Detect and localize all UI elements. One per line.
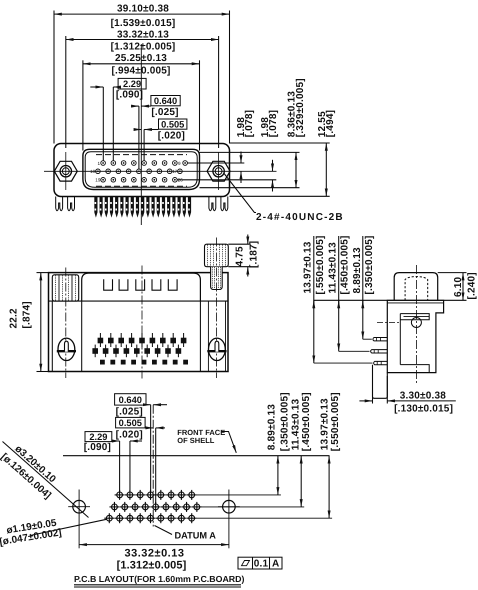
rotated dim text .078 a bbox=[244, 110, 255, 137]
svg-text:[.550±0.005]: [.550±0.005] bbox=[315, 235, 326, 294]
dia 3.20 text bbox=[13, 444, 58, 486]
rotated text .240 bbox=[467, 272, 478, 299]
flange outline bbox=[54, 144, 230, 197]
side body top second line bbox=[387, 302, 443, 304]
dim text 1.312 bbox=[111, 41, 176, 52]
rotated text 13.97 pcb bbox=[320, 398, 331, 450]
boardlock prong right B bbox=[221, 197, 228, 211]
rear inner vertical right a bbox=[199, 301, 201, 371]
boardlock peg bbox=[373, 365, 388, 399]
jackscrew head knurl hatch bbox=[208, 245, 226, 267]
dim line 1.98 second (outside arrows) bbox=[272, 160, 274, 172]
extension line left flange edge bbox=[53, 11, 55, 144]
extension line row1 right bbox=[187, 162, 244, 164]
jackscrew knurl silhouette dashed bbox=[405, 277, 428, 301]
svg-text:13.97±0.13: 13.97±0.13 bbox=[303, 241, 314, 293]
dia 1.19 text bbox=[6, 518, 58, 537]
svg-text:[.329±0.005]: [.329±0.005] bbox=[295, 78, 306, 137]
side body outline bbox=[387, 300, 443, 372]
svg-text:0.505: 0.505 bbox=[119, 418, 142, 428]
rear screw right bbox=[209, 338, 226, 360]
insulator hidden line top bbox=[96, 154, 187, 156]
extension line right flange edge bbox=[229, 11, 231, 144]
side boardlock centerline horizontal bbox=[377, 322, 400, 324]
svg-text:33.32±0.13: 33.32±0.13 bbox=[117, 29, 169, 40]
rotated text .550 pcb bbox=[330, 392, 341, 451]
dim 3.30 extension left bbox=[372, 390, 374, 404]
rotated dim text 22.2 bbox=[9, 308, 20, 329]
dim text 3.30 bbox=[400, 391, 446, 402]
side slot inner line bbox=[404, 316, 430, 318]
rotated text .350 pcb bbox=[279, 392, 290, 451]
dim line 22.2 bbox=[40, 273, 42, 372]
dim text 33.32 pcb bbox=[125, 548, 185, 560]
dim line 2.29 with outside arrows bbox=[90, 86, 103, 88]
boardlock prong left B bbox=[68, 197, 75, 211]
svg-text:1: 1 bbox=[97, 161, 100, 166]
svg-text:[.350±0.005]: [.350±0.005] bbox=[364, 235, 375, 294]
flatness symbol bbox=[242, 561, 250, 566]
svg-text:39.10±0.38: 39.10±0.38 bbox=[117, 4, 169, 15]
U slot 5 bbox=[168, 279, 177, 290]
boardlock prong left A bbox=[56, 197, 63, 211]
dim line 2.29 pcb bbox=[112, 440, 120, 442]
dim vertical 11.43 (middle) bbox=[338, 236, 340, 351]
FRONT FACE note bbox=[177, 428, 225, 437]
extension line mid row col5 bbox=[155, 428, 157, 504]
svg-text:3.30±0.38: 3.30±0.38 bbox=[400, 391, 446, 402]
extension line shell right bbox=[199, 60, 201, 150]
pcb hole row middle (9) bbox=[109, 502, 201, 512]
svg-text:6.10: 6.10 bbox=[453, 276, 464, 297]
rotated dim text 4.75 bbox=[235, 246, 246, 267]
pin row 3 (pins 19-26) bbox=[101, 178, 177, 183]
rear inner vertical right c bbox=[225, 301, 227, 371]
rotated text .450 middle bbox=[340, 235, 351, 294]
extension line flange bottom right bbox=[230, 195, 330, 197]
dim text 25.25 bbox=[115, 53, 167, 64]
side pin 2 bbox=[371, 350, 388, 353]
boardlock prong right A bbox=[209, 197, 216, 211]
svg-text:17: 17 bbox=[172, 169, 178, 174]
thread note text 2-4#-40UNC-2B bbox=[256, 212, 344, 223]
rotated dim text .329 bbox=[295, 78, 306, 137]
pin1 extension to 8.89 bbox=[363, 338, 372, 340]
rotated dim text .078 b bbox=[268, 110, 279, 137]
pin row 2 (pins 10-18) bbox=[96, 169, 183, 174]
U slot 2 bbox=[119, 279, 128, 290]
dim text 33.32 bbox=[117, 29, 169, 40]
dim 4.75 extension bottom bbox=[228, 266, 251, 268]
svg-text:11.43±0.13: 11.43±0.13 bbox=[290, 399, 301, 451]
dim text 1.312 pcb bbox=[117, 560, 187, 572]
rotated text .450 pcb bbox=[301, 392, 312, 451]
right screw outer circle bbox=[213, 166, 224, 177]
dim text .025 bbox=[151, 107, 178, 118]
rotated text 11.43 pcb bbox=[290, 399, 301, 451]
svg-text:2.29: 2.29 bbox=[89, 432, 107, 442]
svg-text:[.494]: [.494] bbox=[325, 110, 336, 137]
svg-text:[1.539±0.015]: [1.539±0.015] bbox=[111, 18, 176, 29]
side bottom notch bbox=[400, 365, 429, 373]
dia .126 text bbox=[0, 452, 53, 502]
dimension 33.32±0.13 line bbox=[66, 39, 219, 41]
dim line 0.505 pcb bbox=[145, 427, 153, 429]
insulator hidden line bottom bbox=[96, 185, 187, 187]
extension line shell inner top bbox=[200, 151, 300, 153]
dimension 39.10±0.38 line bbox=[54, 13, 230, 15]
dim text 1.539 bbox=[111, 18, 176, 29]
dim vertical 8.89 pcb bbox=[277, 456, 279, 495]
svg-text:[1.312±0.005]: [1.312±0.005] bbox=[117, 560, 187, 572]
right screw inner circle bbox=[215, 168, 222, 175]
boxed dim 0.640 bbox=[151, 96, 180, 106]
left hex standoff facet lines bbox=[58, 275, 60, 301]
svg-text:[1.312±0.005]: [1.312±0.005] bbox=[111, 41, 176, 52]
solder pins below flange bbox=[95, 197, 191, 217]
dim 22.2 extension bottom bbox=[37, 371, 52, 373]
D-shell inner outline bbox=[85, 152, 197, 188]
dim 4.75 extension top bbox=[228, 243, 251, 245]
dim line 4.75 outside arrows bbox=[247, 235, 249, 245]
dim text .090 bbox=[116, 89, 143, 100]
rotated dim text .187 bbox=[248, 241, 259, 268]
extension line row2 pin5 column bbox=[138, 106, 140, 169]
dia .047 text bbox=[0, 527, 62, 548]
extension line hole col2 bbox=[129, 441, 131, 492]
dim line 6.10 bbox=[462, 273, 464, 301]
rotated text .350 middle bbox=[364, 235, 375, 294]
right mounting hole bbox=[223, 500, 236, 513]
extension line top row col4 bbox=[150, 405, 152, 492]
row top extension right bbox=[197, 494, 281, 496]
row middle extension right bbox=[202, 506, 304, 508]
pin3 extension to 13.97 bbox=[314, 362, 373, 364]
boxed dim 0.505 pcb bbox=[116, 417, 146, 428]
dim 6.10 extension top bbox=[438, 272, 467, 274]
dim vertical 11.43 pcb bbox=[300, 456, 302, 507]
vertical centerline of top view bbox=[140, 44, 142, 225]
left screw hex bbox=[54, 161, 77, 181]
pin row 1 (pins 1-9) bbox=[101, 161, 188, 166]
rotated dim text .494 bbox=[325, 110, 336, 137]
boxed dim 2.29 pcb bbox=[85, 432, 112, 442]
dim line 0.505 bbox=[135, 129, 141, 131]
boxed dim 0.505 bbox=[159, 119, 187, 129]
title underline double bbox=[74, 584, 241, 586]
rear screw left bbox=[58, 338, 75, 360]
rear pins row C bbox=[100, 360, 188, 365]
dim text .994 bbox=[111, 66, 170, 77]
front face of shell line bbox=[63, 455, 330, 457]
extension line row1 pin2 bbox=[112, 87, 114, 161]
dim 22.2 extension top bbox=[37, 272, 52, 274]
title text bbox=[74, 574, 245, 584]
left mounting hole bbox=[73, 500, 86, 513]
rear centerline bbox=[141, 266, 143, 379]
svg-text:8.89±0.13: 8.89±0.13 bbox=[266, 404, 277, 450]
jackscrew head side bbox=[394, 273, 438, 301]
svg-text:9: 9 bbox=[178, 161, 181, 166]
svg-text:P.C.B LAYOUT(FOR 1.60mm P.C.BO: P.C.B LAYOUT(FOR 1.60mm P.C.BOARD) bbox=[74, 574, 245, 584]
pin2 extension to 11.43 bbox=[339, 350, 370, 352]
svg-text:[.450±0.005]: [.450±0.005] bbox=[301, 392, 312, 451]
U slot 4 bbox=[152, 279, 161, 290]
datum centerline pcb bbox=[152, 405, 154, 527]
pcb hole row top (8) bbox=[115, 490, 197, 500]
side body inner contour bbox=[399, 314, 401, 365]
svg-text:11.43±0.13: 11.43±0.13 bbox=[327, 242, 338, 294]
svg-text:DATUM A: DATUM A bbox=[175, 531, 217, 541]
datum A leader bbox=[155, 526, 173, 535]
dim line 12.55 bbox=[325, 143, 327, 196]
svg-text:22.2: 22.2 bbox=[9, 308, 20, 329]
boxed dim 2.29 bbox=[118, 78, 146, 89]
pcb hole row bottom (9) bbox=[104, 513, 196, 523]
svg-text:2.29: 2.29 bbox=[123, 79, 141, 89]
svg-text:[.078]: [.078] bbox=[244, 110, 255, 137]
svg-text:19: 19 bbox=[95, 178, 101, 183]
jackscrew threaded shaft bbox=[211, 267, 223, 290]
right screw vertical centerline bbox=[218, 152, 220, 190]
extension line shell left bbox=[82, 60, 84, 150]
svg-text:[.090]: [.090] bbox=[116, 89, 143, 100]
svg-text:[.874]: [.874] bbox=[22, 301, 33, 328]
rear inner vertical right b bbox=[207, 301, 209, 371]
U slot 3 bbox=[136, 279, 145, 290]
thread note leader bbox=[224, 174, 256, 213]
dim text .130 bbox=[394, 403, 453, 414]
dim 3.30 extension right bbox=[386, 376, 388, 404]
svg-text:[.187]: [.187] bbox=[248, 241, 259, 268]
svg-text:0.1: 0.1 bbox=[254, 559, 269, 570]
svg-text:[.130±0.015]: [.130±0.015] bbox=[394, 403, 453, 414]
extension line right screw center bbox=[218, 36, 220, 148]
dim line 8.36 bbox=[295, 152, 297, 187]
svg-text:[.025]: [.025] bbox=[151, 107, 178, 118]
rotated text 11.43 middle bbox=[327, 242, 338, 294]
dim line 0.640 pcb bbox=[146, 404, 151, 406]
svg-text:0.640: 0.640 bbox=[119, 395, 142, 405]
rotated text .550 middle bbox=[315, 235, 326, 294]
left screw vertical centerline bbox=[65, 152, 67, 190]
left standoff centerline bbox=[65, 268, 67, 379]
rear inner vertical left b bbox=[81, 301, 83, 371]
DATUM A text bbox=[175, 531, 217, 541]
svg-text:[.350±0.005]: [.350±0.005] bbox=[279, 392, 290, 451]
jackscrew shaft thread hatch bbox=[212, 267, 220, 289]
extension line row1 pin1 bbox=[102, 87, 104, 161]
rotated dim text 1.98 b bbox=[260, 117, 271, 138]
jackscrew centerline bbox=[215, 238, 217, 379]
dim vertical 8.89 (middle) bbox=[362, 236, 364, 339]
svg-text:0.640: 0.640 bbox=[154, 96, 177, 106]
extension line left screw center bbox=[65, 36, 67, 148]
right screw hex bbox=[207, 161, 230, 181]
side pin 1 bbox=[373, 338, 387, 341]
dim text .025 pcb bbox=[116, 406, 143, 417]
boxed dim 0.640 pcb bbox=[115, 394, 146, 405]
side centerline vertical bbox=[415, 265, 417, 385]
svg-text:[.240]: [.240] bbox=[467, 272, 478, 299]
side slot upper bbox=[400, 314, 429, 320]
rear body outline bbox=[49, 273, 229, 372]
U slot 1 bbox=[104, 279, 113, 290]
front face leader bbox=[222, 432, 237, 453]
dimension 25.25±0.13 line bbox=[83, 63, 200, 65]
rotated text 13.97 middle bbox=[303, 241, 314, 293]
rotated dim text 8.36 bbox=[286, 91, 297, 137]
extension line hole col1 bbox=[119, 441, 121, 492]
dim line 1.98 first (outside arrows) bbox=[240, 152, 242, 164]
dim text .090 pcb bbox=[84, 442, 111, 453]
svg-text:[.078]: [.078] bbox=[268, 110, 279, 137]
screw centerline horizontal (row2 line) bbox=[44, 170, 277, 172]
boardlock screw end bbox=[411, 318, 421, 328]
extension line row3 right bbox=[177, 179, 276, 181]
rotated text 6.10 bbox=[453, 276, 464, 297]
rear pins row B bbox=[95, 345, 178, 358]
left hex standoff bbox=[52, 275, 78, 301]
svg-text:A: A bbox=[272, 559, 279, 570]
dim vertical 13.97 (middle) bbox=[313, 236, 315, 363]
rear shell rounded top bbox=[82, 273, 201, 301]
extension line shell inner bottom bbox=[200, 187, 300, 189]
left screw inner circle bbox=[62, 168, 69, 175]
dim text .020 pcb bbox=[116, 430, 143, 441]
rotated text 8.89 middle bbox=[352, 247, 363, 293]
svg-text:8.89±0.13: 8.89±0.13 bbox=[352, 247, 363, 293]
right jackscrew head (knurled) bbox=[205, 244, 229, 267]
svg-text:[.025]: [.025] bbox=[116, 406, 143, 417]
dim line 33.32 pcb bbox=[79, 544, 229, 546]
dim line 3.30 outside arrows bbox=[359, 400, 372, 402]
rear pins row A bbox=[100, 333, 183, 347]
dia 1.19 leader bbox=[30, 519, 107, 535]
svg-text:10: 10 bbox=[90, 169, 96, 174]
rear flange step line bbox=[49, 300, 229, 302]
dia 3.20 leader bbox=[3, 442, 89, 518]
svg-text:2-4#-40UNC-2B: 2-4#-40UNC-2B bbox=[256, 212, 344, 223]
rotated text 8.89 pcb bbox=[266, 404, 277, 450]
left screw outer circle bbox=[60, 166, 71, 177]
flatness feature control frame bbox=[238, 557, 282, 569]
rear inner vertical left a bbox=[51, 301, 53, 371]
dim text .020 bbox=[158, 130, 185, 141]
D-shell outer outline bbox=[83, 149, 200, 189]
rotated dim text 1.98 a bbox=[236, 117, 247, 138]
extension line row1 pin5 column bbox=[143, 130, 145, 161]
rotated dim text 12.55 bbox=[317, 111, 328, 137]
svg-text:[.550±0.005]: [.550±0.005] bbox=[330, 392, 341, 451]
dim line 0.640 bbox=[131, 105, 139, 107]
side pin 3 bbox=[374, 361, 388, 364]
dim vertical 13.97 pcb bbox=[328, 456, 330, 519]
svg-text:[.090]: [.090] bbox=[84, 442, 111, 453]
svg-text:33.32±0.13: 33.32±0.13 bbox=[125, 548, 185, 560]
svg-text:0.505: 0.505 bbox=[161, 119, 184, 129]
dim text 39.10 bbox=[117, 4, 169, 15]
svg-text:OF SHELL: OF SHELL bbox=[177, 436, 215, 445]
svg-text:[.020]: [.020] bbox=[116, 430, 143, 441]
svg-text:[.450±0.005]: [.450±0.005] bbox=[340, 235, 351, 294]
front face reference line bbox=[314, 299, 467, 301]
rotated dim text .874 bbox=[22, 301, 33, 328]
svg-text:[.020]: [.020] bbox=[158, 130, 185, 141]
pin number labels bbox=[90, 161, 183, 183]
extension line flange top right bbox=[230, 142, 330, 144]
svg-text:4.75: 4.75 bbox=[235, 246, 246, 267]
row bottom extension right bbox=[197, 517, 332, 519]
